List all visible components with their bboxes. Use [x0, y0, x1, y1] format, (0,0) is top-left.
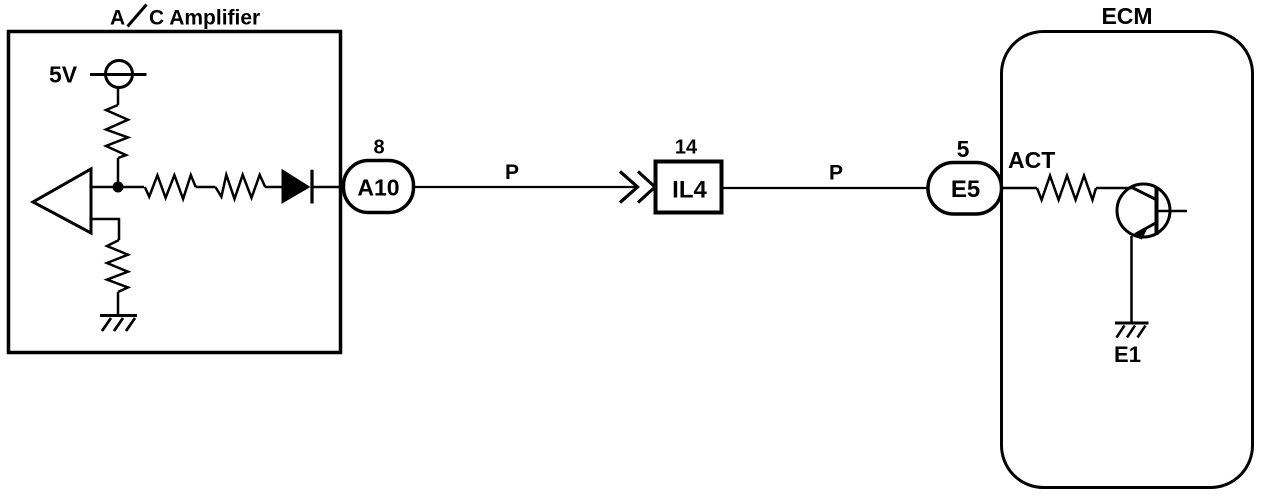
- wire between resistors: [196, 186, 216, 189]
- label E1: [1114, 342, 1141, 367]
- svg-text:14: 14: [675, 137, 698, 159]
- svg-text:A: A: [110, 7, 125, 30]
- svg-text:8: 8: [373, 137, 384, 159]
- connector A10: [344, 161, 414, 213]
- 5V supply symbol: [90, 61, 147, 88]
- wire resistor to diode: [265, 186, 282, 189]
- svg-text:P: P: [829, 162, 843, 185]
- inline connector chevron 2: [638, 172, 655, 203]
- pin number 5: [957, 136, 970, 162]
- svg-text:ECM: ECM: [1101, 3, 1152, 29]
- svg-text:E1: E1: [1114, 342, 1141, 367]
- wire diode to connector A10: [312, 186, 345, 189]
- ground (amplifier): [100, 316, 137, 332]
- svg-text:C Amplifier: C Amplifier: [149, 7, 260, 30]
- diode: [282, 170, 312, 204]
- op-amp (comparator): [33, 169, 91, 233]
- resistor (series 1, horizontal): [145, 175, 196, 199]
- node junction dot: [113, 182, 124, 193]
- inline connector chevron 1: [620, 172, 638, 203]
- resistor (lower, vertical): [107, 240, 128, 292]
- svg-text:IL4: IL4: [672, 177, 707, 204]
- wire emitter to ground: [1130, 236, 1133, 323]
- connector IL4: [656, 162, 722, 213]
- 5V supply label: [49, 62, 78, 88]
- pin number 14: [675, 137, 698, 159]
- net label P (left): [505, 161, 519, 184]
- net label ACT: [1008, 147, 1055, 173]
- svg-text:ACT: ACT: [1008, 147, 1055, 173]
- ECM box: [1002, 32, 1253, 488]
- wire 5V to resistor: [117, 88, 120, 106]
- wire resistor to ground: [117, 292, 120, 315]
- wire IL4 to E5 (net P): [723, 187, 930, 189]
- ground E1: [1115, 323, 1149, 338]
- svg-text:E5: E5: [951, 176, 980, 203]
- label A/C Amplifier: [110, 5, 260, 30]
- connector E5: [928, 163, 1002, 215]
- net label P (right): [829, 162, 843, 185]
- wire resistor to node: [117, 158, 120, 187]
- svg-text:5: 5: [957, 136, 970, 162]
- A/C Amplifier box: [9, 32, 341, 353]
- wire op-amp output: [91, 186, 144, 189]
- wire resistor to transistor collector: [1096, 187, 1133, 190]
- transistor (NPN): [1117, 184, 1187, 240]
- pin number 8: [373, 137, 384, 159]
- wire A10 to IL4 (net P): [412, 186, 637, 188]
- label ECM: [1101, 3, 1152, 29]
- resistor (series 2, horizontal): [215, 175, 265, 199]
- wire op-amp lower terminal: [91, 219, 119, 240]
- svg-text:A10: A10: [357, 175, 399, 201]
- svg-text:5V: 5V: [49, 62, 78, 88]
- resistor (pull-up, vertical): [106, 105, 128, 158]
- wire E5 to resistor: [1001, 187, 1037, 190]
- resistor (ACT, horizontal): [1037, 176, 1096, 200]
- svg-text:P: P: [505, 161, 519, 184]
